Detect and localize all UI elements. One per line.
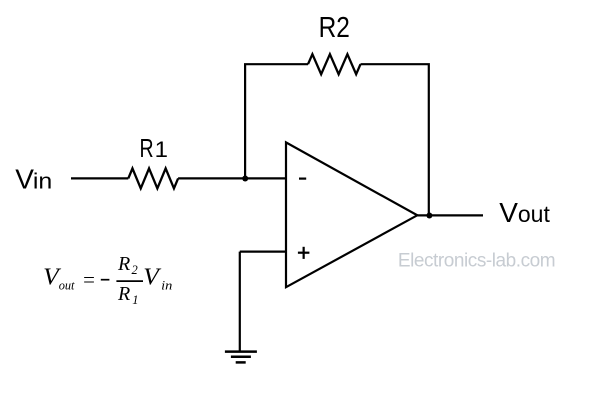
svg-text:V: V <box>143 265 161 291</box>
formula Vout = -R2/R1 Vin <box>43 253 172 307</box>
wire: Vin lead to R1 <box>71 177 128 179</box>
svg-text:out: out <box>518 201 551 227</box>
resistor R1 <box>128 168 178 188</box>
svg-text:1: 1 <box>155 137 168 162</box>
node: feedback junction dot <box>242 176 248 182</box>
wire: R1 to inverting input <box>178 177 286 179</box>
svg-text:in: in <box>161 278 172 292</box>
wire: feedback right-down segment <box>361 64 429 215</box>
ground <box>225 350 257 353</box>
plus sign (non-inverting input) <box>298 252 310 254</box>
resistor R2 <box>308 54 361 74</box>
wire: feedback up-left segment <box>245 64 308 178</box>
svg-text:in: in <box>33 169 52 194</box>
svg-text:out: out <box>59 278 75 292</box>
svg-text:2: 2 <box>132 263 138 277</box>
wire: output <box>417 214 483 216</box>
svg-text:Electronics-lab.com: Electronics-lab.com <box>398 251 555 272</box>
svg-text:1: 1 <box>132 293 138 307</box>
svg-text:R2: R2 <box>319 12 350 44</box>
op-amp U1 <box>286 142 417 287</box>
svg-text:V: V <box>499 197 518 228</box>
wire: to ground <box>239 252 241 352</box>
minus sign (inverting input) <box>299 178 306 180</box>
svg-text:R: R <box>117 253 130 275</box>
svg-text:R: R <box>140 135 154 163</box>
wire: non-inverting input <box>240 251 286 253</box>
svg-text:V: V <box>15 164 34 195</box>
svg-text:=: = <box>82 268 96 292</box>
node: output junction dot <box>426 213 432 219</box>
svg-text:R: R <box>117 283 130 305</box>
